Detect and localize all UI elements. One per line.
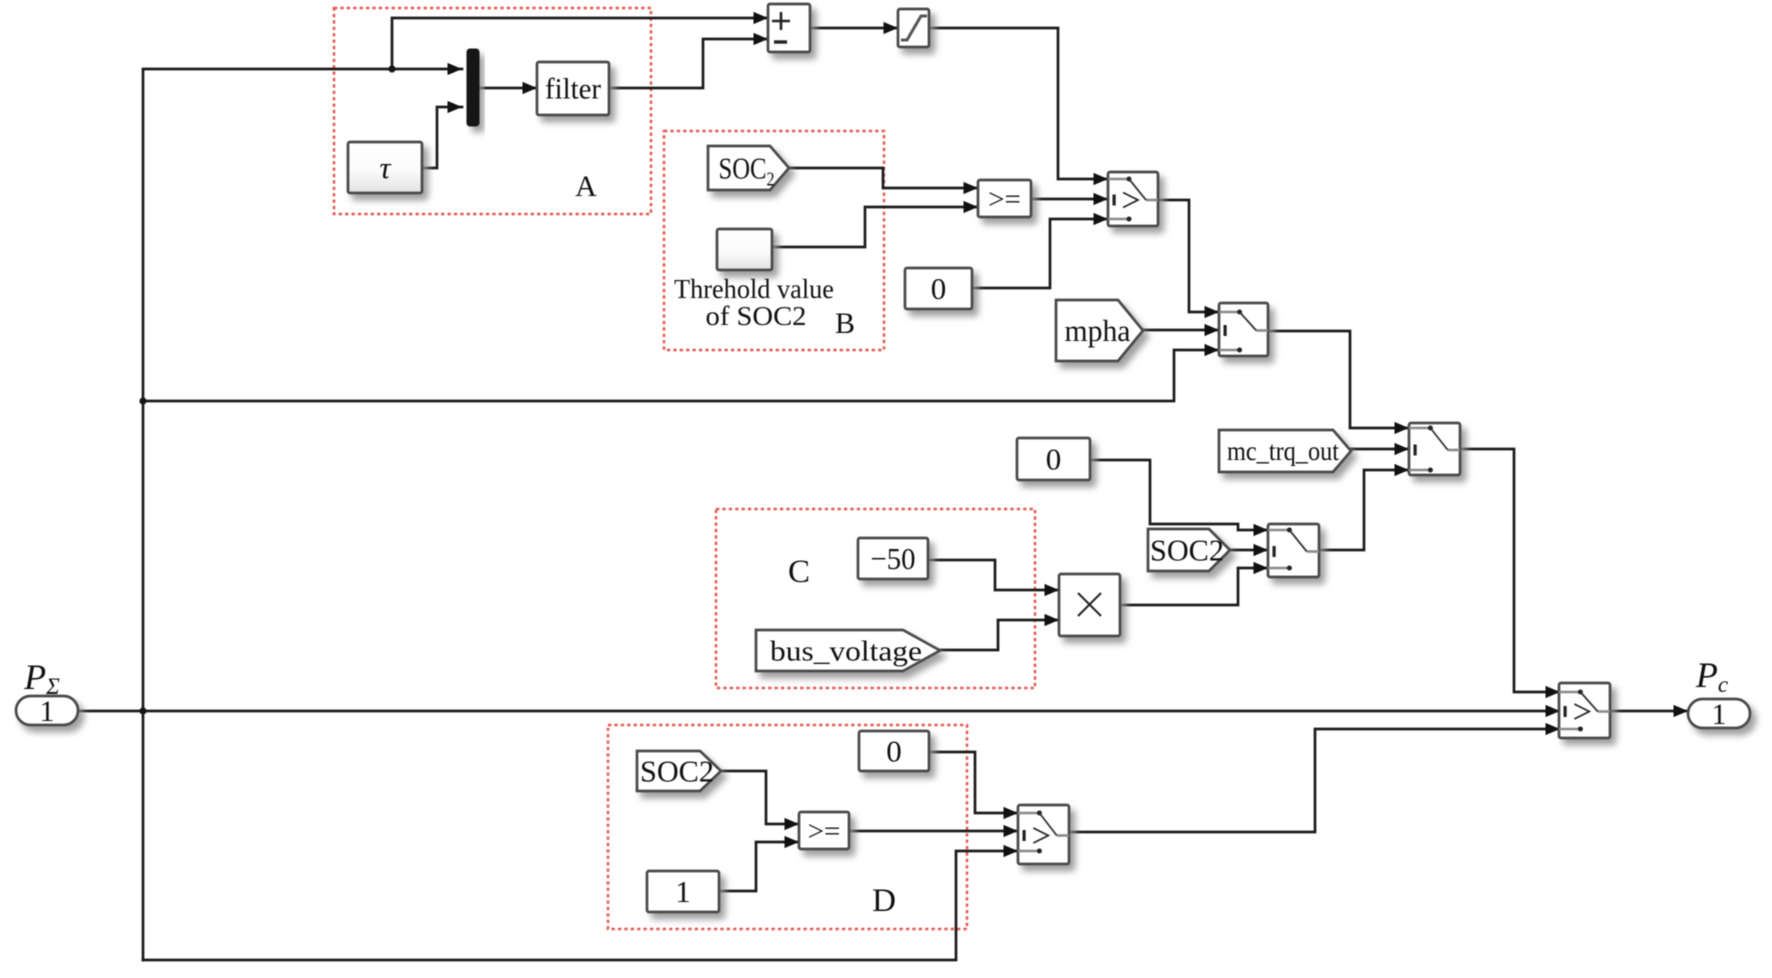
svg-text:D: D: [872, 883, 896, 919]
product block: [1059, 574, 1120, 636]
junction node P-sigma trunk: [139, 707, 146, 714]
svg-text:0: 0: [931, 271, 947, 306]
const 0 c: [859, 731, 929, 771]
const 0 a: [905, 268, 972, 309]
wire switch5 to switch6 in3: [1069, 723, 1560, 832]
dashed box D: [608, 725, 967, 929]
input port 1 (P-sigma): [16, 695, 78, 728]
mc_trq_out tag: [1219, 430, 1351, 472]
svg-text:SOC2: SOC2: [640, 754, 714, 789]
svg-text:0: 0: [1046, 442, 1062, 477]
wire mpha tag to switch2 in2: [1143, 324, 1219, 336]
wire input trunk vertical + top feed to mux in1: [143, 63, 462, 960]
svg-text:1: 1: [40, 695, 55, 728]
mpha tag: [1056, 300, 1143, 361]
wire P-sigma input to switch6 in2: [78, 705, 1560, 717]
wire switch2 to switch3 in1: [1268, 331, 1409, 434]
wire product to switch4 in3: [1120, 562, 1268, 605]
svg-text:>=: >=: [988, 183, 1021, 215]
wire SOC2 mid tag to switch4 in2: [1230, 544, 1268, 556]
wire const0b to switch4 in1: [1090, 460, 1268, 536]
svg-text:τ: τ: [379, 150, 392, 185]
wire riser to sum plus input: [392, 12, 768, 69]
const 1: [647, 871, 719, 912]
saturation block: [898, 9, 929, 47]
svg-text:bus_voltage: bus_voltage: [770, 635, 922, 667]
tau gain block: [348, 142, 422, 193]
wire SOC2 tag to relop1 in1: [789, 168, 978, 194]
wire const1 to relop2 in2: [719, 836, 799, 891]
svg-text:Pc: Pc: [1695, 655, 1728, 697]
wire tau to mux in2: [422, 101, 462, 168]
wire mc_trq_out tag to switch3 in2: [1351, 443, 1409, 455]
wire const0c to switch5 in1: [929, 752, 1018, 819]
switch3: [1409, 423, 1460, 475]
svg-text:1: 1: [1712, 698, 1727, 731]
output port 1 (P-c): [1688, 698, 1750, 731]
const 0 b: [1017, 438, 1090, 480]
wire relop1 to switch1 in2: [1031, 193, 1108, 205]
svg-text:1: 1: [675, 874, 691, 909]
wire switch4 to switch3 in3: [1319, 464, 1409, 550]
wire filter to sum minus input: [609, 33, 768, 88]
label C: [788, 554, 810, 590]
svg-text:PΣ: PΣ: [23, 657, 60, 699]
svg-text:0: 0: [886, 734, 902, 769]
wire switch1 to switch2 in1: [1158, 200, 1219, 318]
wire mux to filter: [479, 82, 537, 94]
svg-text:B: B: [835, 307, 855, 340]
wire bus_voltage tag to product in2: [940, 614, 1059, 650]
switch2: [1219, 303, 1268, 356]
wire threshold const to relop1 in2: [772, 201, 978, 247]
junction node mux feed: [388, 65, 395, 72]
SOC2 mid tag: [1148, 529, 1230, 571]
switch5: [1018, 805, 1069, 864]
wire SOC2 D tag to relop2 in1: [721, 771, 799, 830]
svg-text:C: C: [788, 554, 810, 590]
wire bottom trunk to switch5 in3: [143, 845, 1018, 960]
wire switch3 to switch6 in1: [1460, 449, 1560, 698]
dashed box C: [716, 509, 1035, 688]
dashed box A: [334, 8, 651, 214]
wire const-50 to product in1: [928, 560, 1059, 596]
filter block: [537, 62, 609, 115]
threshold value const block: [717, 229, 772, 270]
switch6: [1559, 683, 1610, 738]
label B: [835, 307, 855, 340]
svg-text:Threhold value: Threhold value: [674, 274, 834, 304]
wire trunk branch to switch2 in3: [143, 344, 1219, 401]
const -50: [858, 538, 928, 579]
SOC2 D tag: [637, 751, 721, 791]
svg-text:of SOC2: of SOC2: [706, 301, 807, 331]
wire switch6 to output port: [1611, 705, 1688, 717]
wire const0a to switch1 in3: [972, 213, 1108, 288]
threshold caption: [674, 274, 834, 331]
relational operator 1 (>=): [978, 180, 1031, 217]
label D: [872, 883, 896, 919]
sum block: [768, 4, 810, 52]
svg-text:SOC2: SOC2: [1150, 533, 1224, 568]
wire saturation to switch1 in1: [929, 28, 1108, 185]
svg-text:mpha: mpha: [1065, 313, 1131, 348]
label A: [575, 170, 597, 203]
svg-text:mc_trq_out: mc_trq_out: [1227, 436, 1339, 466]
wire relop2 to switch5 in2: [849, 825, 1018, 837]
svg-text:filter: filter: [545, 73, 601, 106]
svg-text:SOC2: SOC2: [719, 151, 775, 191]
svg-text:−50: −50: [871, 541, 916, 576]
label P-c: [1695, 655, 1728, 697]
relational operator 2 (>=): [799, 812, 849, 849]
label P-sigma: [23, 657, 60, 699]
svg-text:A: A: [575, 170, 597, 203]
svg-text:>=: >=: [808, 815, 841, 847]
junction node trunk branch: [139, 397, 146, 404]
switch1: [1108, 172, 1158, 226]
dashed box B: [664, 131, 884, 350]
mux block: [467, 49, 479, 126]
switch4: [1268, 524, 1319, 577]
wire sum to saturation: [810, 22, 898, 34]
bus_voltage tag: [756, 630, 940, 671]
SOC2 subscript tag: [708, 146, 789, 191]
